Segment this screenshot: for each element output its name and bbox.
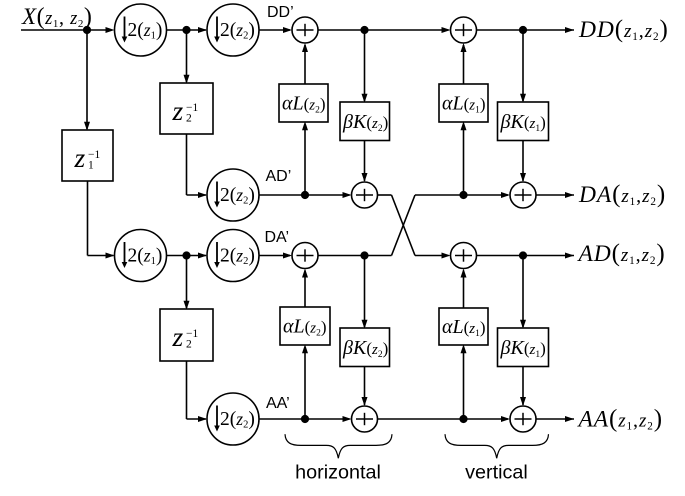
svg-text:αL(z2): αL(z2) xyxy=(282,93,326,116)
svg-text:−1: −1 xyxy=(186,102,198,114)
svg-text:−1: −1 xyxy=(186,328,198,340)
svg-text:1: 1 xyxy=(88,159,94,171)
svg-text:DA’: DA’ xyxy=(265,229,290,246)
svg-text:αL(z1): αL(z1) xyxy=(442,316,486,339)
svg-text:z: z xyxy=(172,95,184,126)
svg-text:2: 2 xyxy=(186,112,192,124)
svg-text:2(z1): 2(z1) xyxy=(128,20,163,42)
svg-text:αL(z2): αL(z2) xyxy=(283,316,327,339)
svg-text:vertical: vertical xyxy=(465,462,528,484)
svg-text:2(z2): 2(z2) xyxy=(220,245,255,267)
svg-text:z: z xyxy=(172,321,184,352)
svg-text:2: 2 xyxy=(186,338,192,350)
svg-text:AA’: AA’ xyxy=(266,395,290,412)
svg-text:z: z xyxy=(74,142,86,173)
svg-text:2(z2): 2(z2) xyxy=(220,185,255,207)
svg-text:−1: −1 xyxy=(88,149,100,161)
svg-text:2(z2): 2(z2) xyxy=(220,20,255,42)
svg-text:2(z2): 2(z2) xyxy=(220,409,255,431)
svg-text:2(z1): 2(z1) xyxy=(128,245,163,267)
svg-text:DD’: DD’ xyxy=(267,4,294,21)
svg-text:αL(z1): αL(z1) xyxy=(442,93,486,116)
svg-text:horizontal: horizontal xyxy=(295,462,381,484)
svg-text:AD’: AD’ xyxy=(266,168,292,185)
